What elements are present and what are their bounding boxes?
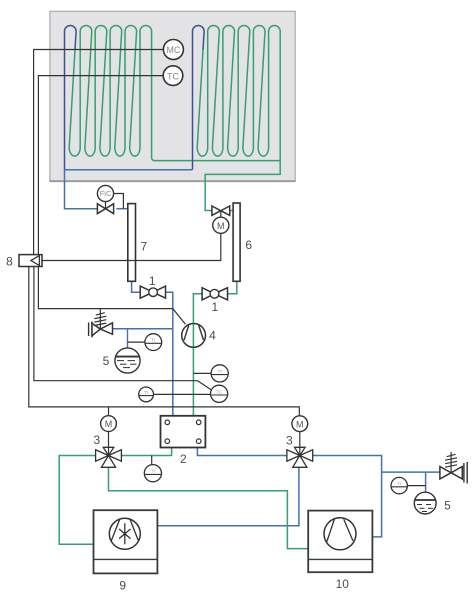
svg-text:4: 4	[209, 329, 216, 343]
svg-text:TC: TC	[216, 389, 223, 394]
svg-text:7: 7	[141, 240, 148, 254]
svg-text:TI: TI	[151, 338, 155, 343]
svg-text:5: 5	[444, 499, 451, 513]
svg-text:9: 9	[119, 579, 126, 593]
svg-text:TC: TC	[167, 71, 179, 81]
svg-text:6: 6	[245, 238, 252, 252]
svg-text:1: 1	[149, 274, 156, 288]
svg-text:1: 1	[212, 300, 219, 314]
svg-text:3: 3	[286, 433, 293, 447]
svg-text:TI: TI	[144, 390, 148, 395]
svg-text:TI: TI	[151, 469, 155, 474]
svg-text:FIC: FIC	[100, 189, 112, 198]
svg-text:5: 5	[103, 354, 110, 368]
svg-text:3: 3	[94, 433, 101, 447]
svg-text:8: 8	[6, 255, 13, 269]
svg-text:TI: TI	[397, 481, 401, 486]
svg-text:2: 2	[180, 452, 187, 466]
svg-text:TI: TI	[218, 369, 222, 374]
svg-text:10: 10	[336, 577, 350, 591]
svg-text:M: M	[296, 419, 304, 429]
svg-text:M: M	[105, 419, 113, 429]
svg-text:M: M	[217, 221, 225, 231]
svg-text:MC: MC	[166, 45, 180, 55]
